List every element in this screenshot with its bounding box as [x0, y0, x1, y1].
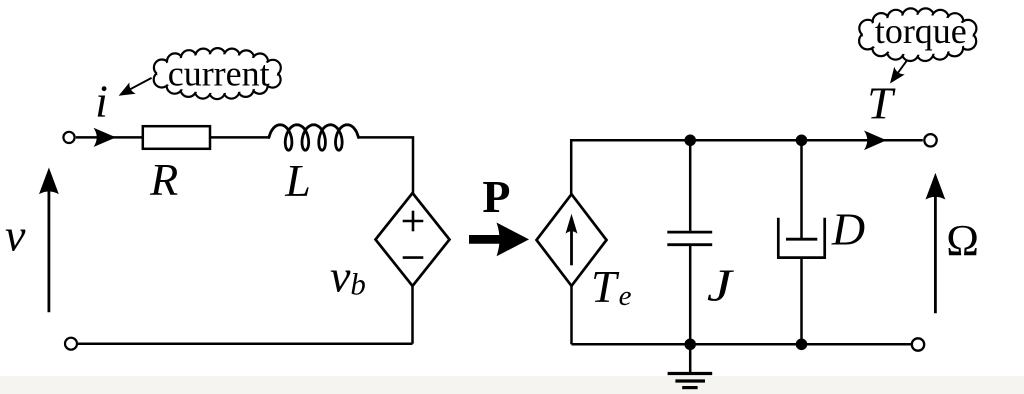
dependent voltage source v_b (diamond) — [376, 193, 450, 286]
capacitor J plates — [667, 232, 712, 245]
svg-text:current: current — [168, 54, 270, 94]
power flow arrow P — [469, 223, 529, 257]
wire terminal to resistor — [76, 136, 143, 139]
terminal top-left — [63, 132, 74, 143]
terminal bottom-right — [912, 338, 924, 350]
junction node dot bottom (cap) — [684, 339, 696, 351]
minus sign — [403, 256, 424, 259]
bottom rail right circuit — [572, 343, 912, 346]
bottom wire left circuit — [78, 342, 413, 345]
capacitor J: bottom lead — [689, 246, 692, 344]
callout pointer arrow (current to i) — [115, 78, 151, 102]
plus sign — [403, 211, 424, 232]
svg-text:torque: torque — [875, 11, 967, 51]
arrowhead T (torque direction) — [864, 131, 887, 151]
damper D: rod to bottom — [800, 258, 803, 345]
current direction arrowhead i — [94, 128, 117, 147]
callout pointer arrow (torque to T) — [885, 61, 907, 87]
svg-text:J: J — [707, 260, 734, 311]
svg-text:v: v — [5, 209, 26, 260]
callout cloud "torque" — [859, 8, 976, 61]
junction node dot top (damper) — [796, 135, 808, 147]
dependent current source T_e (diamond) — [537, 194, 607, 286]
terminal bottom-left — [65, 338, 77, 350]
callout cloud "current" — [154, 48, 281, 99]
terminal top-right — [924, 134, 936, 146]
svg-text:R: R — [149, 154, 178, 205]
junction node dot bottom (damper) — [796, 339, 808, 351]
wire: T_e top corner and top rail — [571, 140, 923, 194]
ground — [668, 344, 713, 387]
inductor L — [269, 125, 358, 150]
svg-text:D: D — [831, 204, 865, 255]
wire inductor to source (top right corner of left loop) — [358, 137, 413, 194]
svg-text:Ω: Ω — [946, 216, 979, 265]
svg-text:P: P — [482, 171, 510, 222]
capacitor J: top lead — [689, 140, 692, 231]
wire resistor to inductor — [210, 136, 270, 139]
damper D cup — [778, 218, 824, 258]
arrow inside T_e source — [566, 214, 578, 265]
svg-text:i: i — [95, 76, 108, 127]
resistor R — [143, 126, 210, 149]
damper D piston plate — [786, 238, 817, 241]
wire source to bottom — [411, 286, 414, 344]
junction node dot top (cap) — [684, 135, 696, 147]
arrow Omega (speed) — [926, 173, 946, 313]
wire source bottom to bottom rail — [570, 286, 573, 344]
svg-text:L: L — [284, 155, 311, 206]
svg-text:T: T — [867, 77, 896, 128]
damper D: rod from top — [800, 140, 803, 238]
arrow v (input voltage) — [39, 168, 59, 313]
